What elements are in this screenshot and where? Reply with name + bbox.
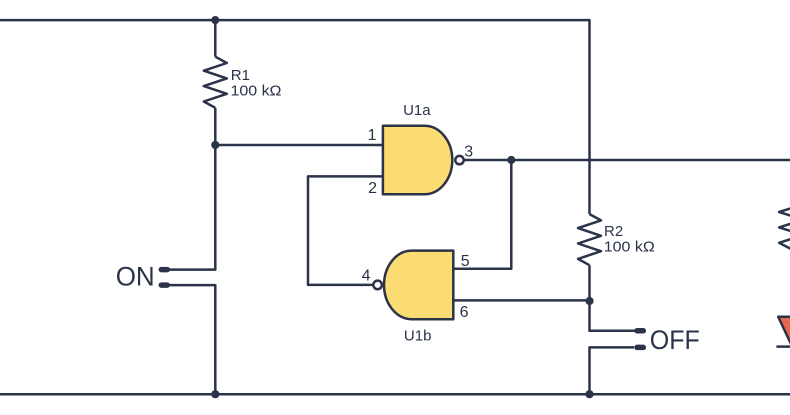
svg-text:3: 3 [464, 143, 473, 160]
svg-text:6: 6 [460, 304, 469, 321]
svg-text:2: 2 [368, 180, 377, 197]
svg-text:5: 5 [461, 253, 470, 270]
svg-text:4: 4 [362, 268, 371, 285]
svg-text:1: 1 [368, 127, 377, 144]
svg-text:U1a: U1a [403, 102, 431, 119]
svg-text:R2: R2 [604, 223, 623, 240]
svg-text:100 kΩ: 100 kΩ [231, 83, 282, 100]
svg-text:U1b: U1b [404, 327, 432, 344]
svg-text:ON: ON [116, 261, 155, 291]
svg-text:100 kΩ: 100 kΩ [604, 239, 655, 256]
svg-text:OFF: OFF [650, 325, 700, 355]
